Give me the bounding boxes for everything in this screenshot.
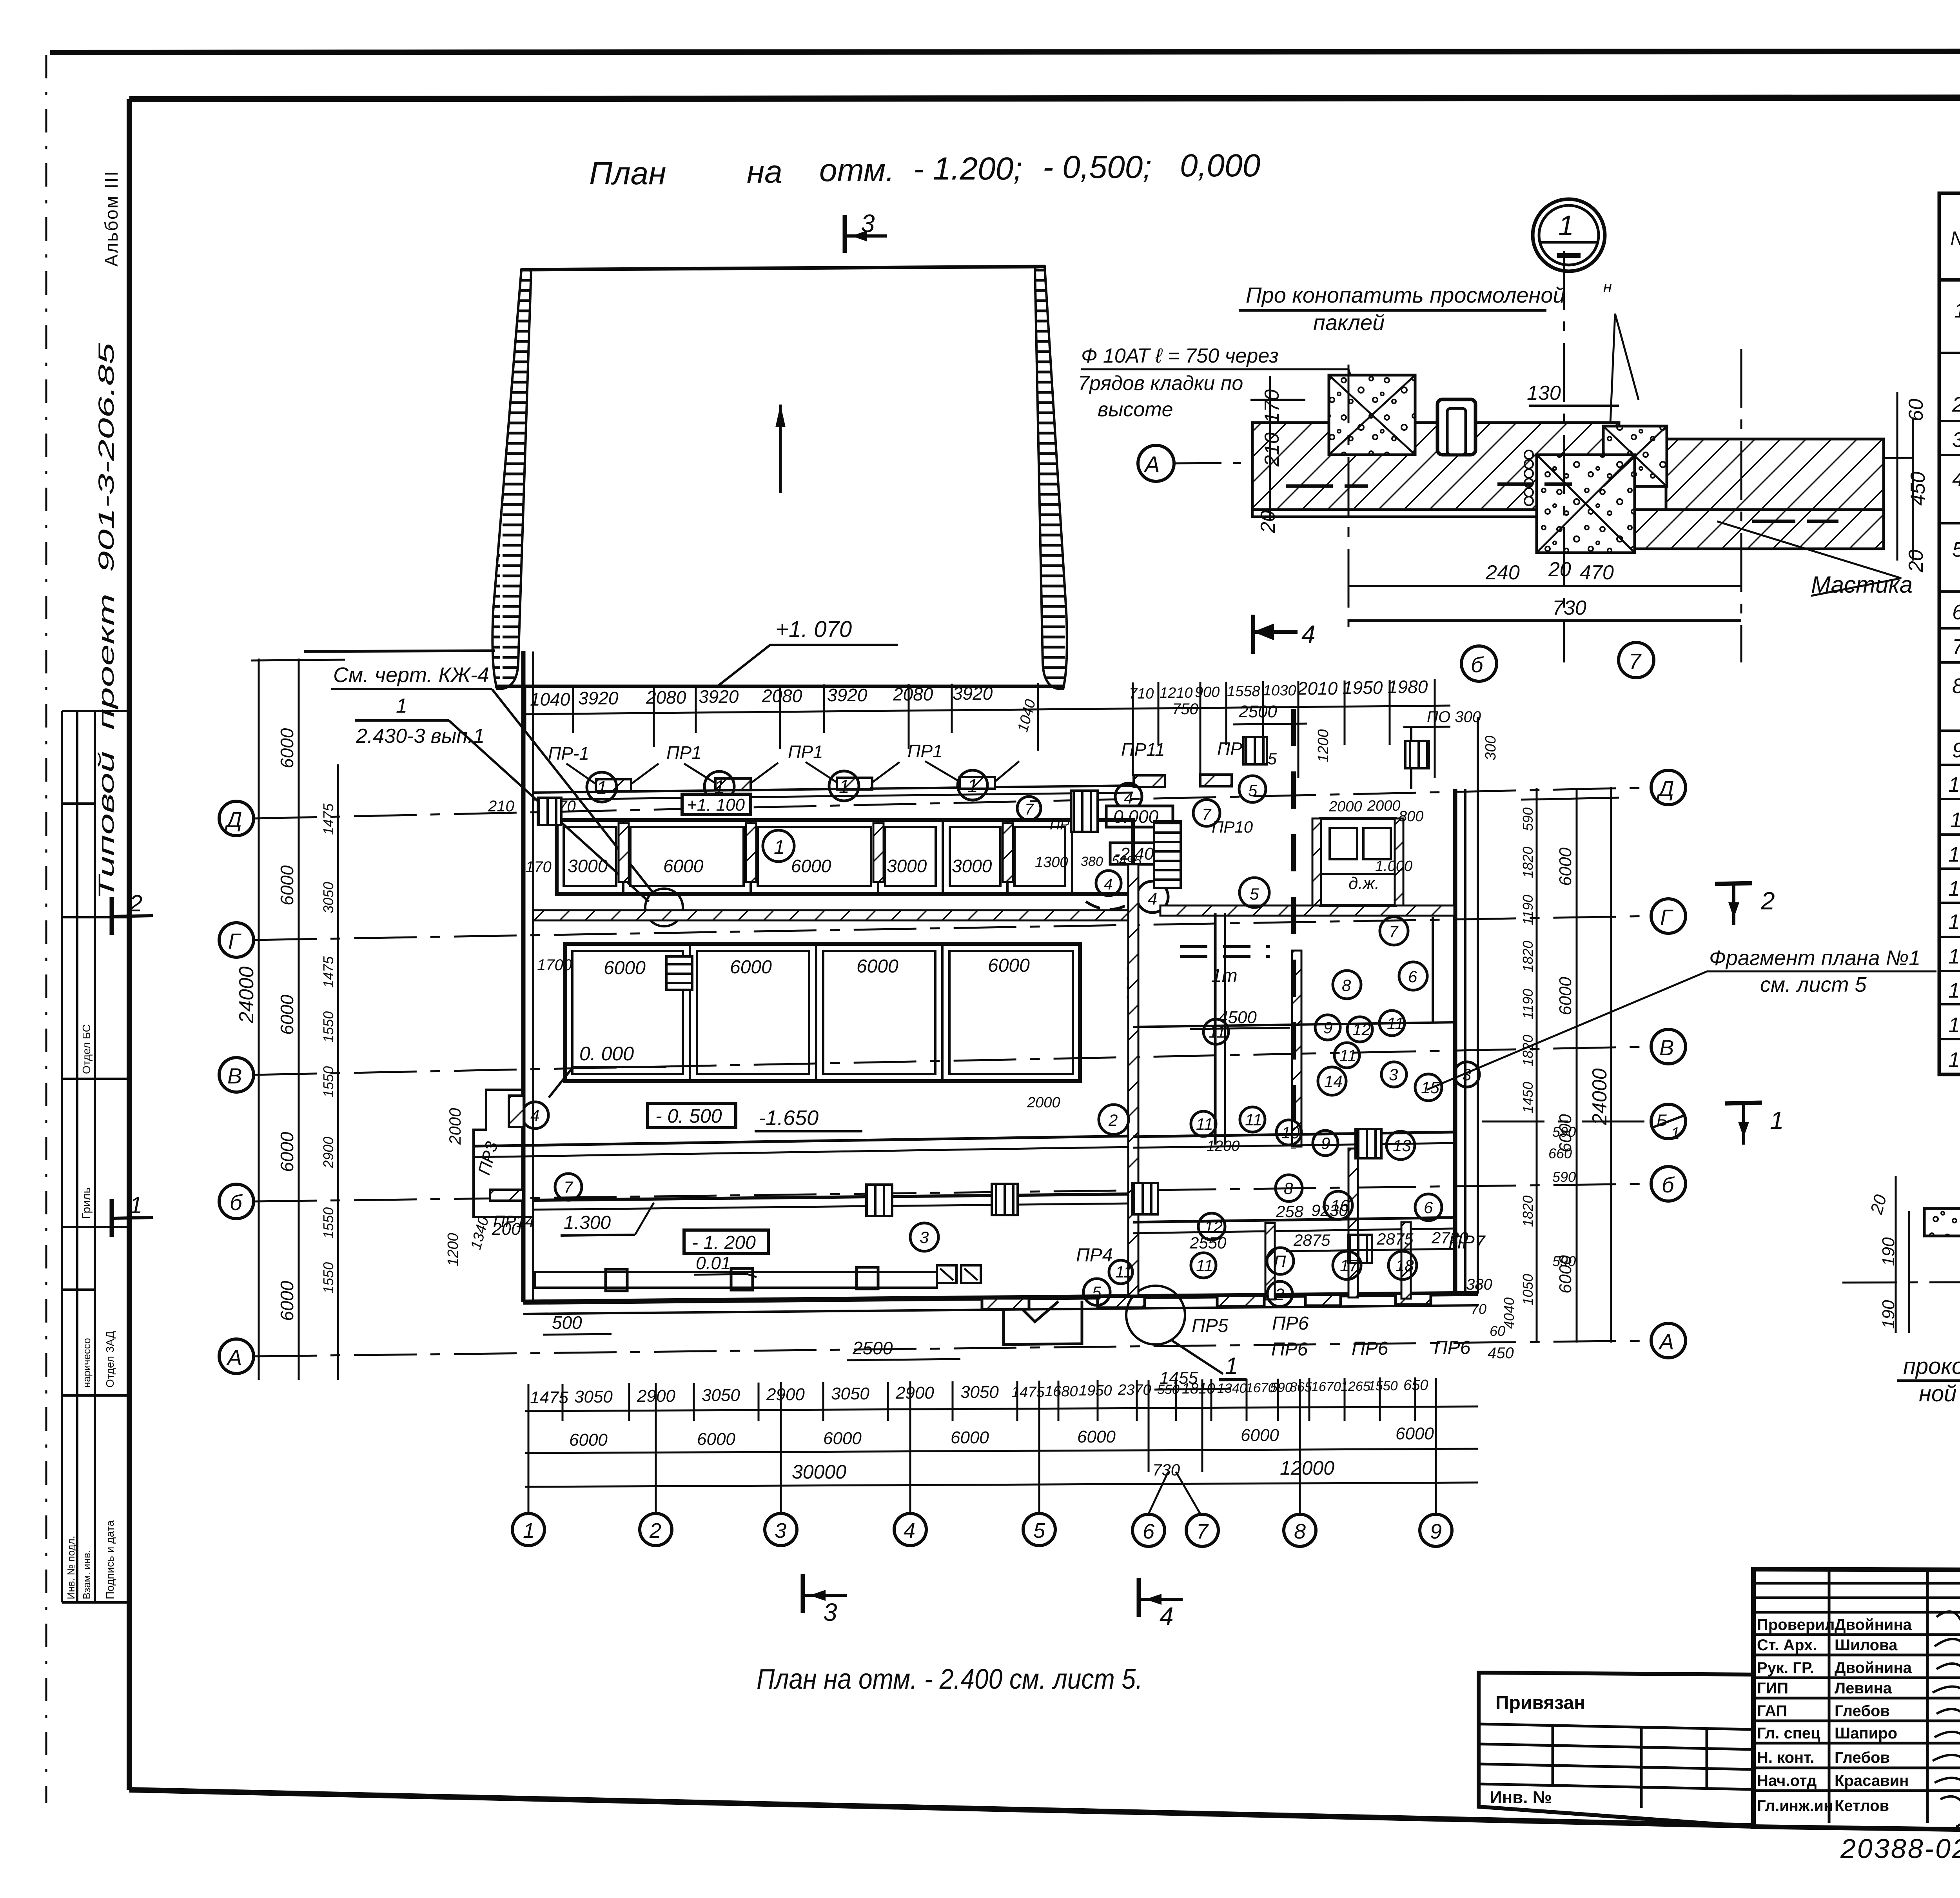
svg-text:2900: 2900: [895, 1383, 934, 1403]
svg-text:1: 1: [774, 836, 785, 858]
svg-text:20388-02: 20388-02: [1840, 1833, 1960, 1864]
svg-text:- 0. 500: - 0. 500: [655, 1105, 722, 1127]
svg-text:1030: 1030: [1263, 682, 1296, 699]
svg-text:4: 4: [1952, 467, 1960, 491]
svg-text:1980: 1980: [1388, 677, 1428, 697]
svg-text:ной паклей: ной паклей: [1919, 1381, 1960, 1406]
svg-text:Мастика: Мастика: [1811, 572, 1913, 598]
svg-text:11: 11: [1196, 1115, 1213, 1133]
svg-text:6000: 6000: [604, 958, 646, 978]
svg-text:1040: 1040: [1014, 698, 1039, 734]
svg-text:Гл.инж.ин: Гл.инж.ин: [1757, 1797, 1833, 1815]
svg-text:4: 4: [530, 1106, 539, 1125]
svg-text:9: 9: [1952, 739, 1960, 762]
svg-text:20: 20: [1548, 558, 1571, 581]
svg-text:6000: 6000: [277, 865, 297, 905]
svg-text:4: 4: [1301, 620, 1316, 648]
svg-text:1.000: 1.000: [1375, 858, 1412, 875]
svg-text:6000: 6000: [1556, 977, 1575, 1015]
svg-text:8: 8: [1284, 1179, 1293, 1198]
svg-text:380: 380: [1081, 854, 1103, 869]
svg-text:3050: 3050: [574, 1387, 613, 1406]
svg-text:1680: 1680: [1045, 1383, 1078, 1400]
svg-text:6000: 6000: [988, 955, 1030, 976]
svg-text:отм.: отм.: [819, 152, 895, 188]
svg-text:450: 450: [1907, 472, 1929, 506]
svg-text:Отдел БС: Отдел БС: [80, 1024, 93, 1074]
svg-text:1700: 1700: [537, 956, 572, 974]
svg-text:8: 8: [1294, 1520, 1306, 1543]
svg-text:2000: 2000: [1367, 798, 1401, 814]
svg-text:170: 170: [1261, 389, 1283, 423]
svg-text:В: В: [227, 1063, 242, 1088]
svg-text:1200: 1200: [445, 1233, 461, 1266]
svg-text:5: 5: [1248, 781, 1258, 800]
svg-text:Фрагмент плана №1: Фрагмент плана №1: [1709, 946, 1920, 970]
svg-text:6000: 6000: [823, 1429, 862, 1448]
svg-text:4: 4: [1124, 789, 1133, 807]
svg-text:5: 5: [1250, 885, 1259, 903]
svg-text:1: 1: [1225, 1353, 1238, 1379]
svg-text:5: 5: [1033, 1519, 1045, 1542]
svg-text:590: 590: [1552, 1169, 1576, 1185]
svg-text:0.01: 0.01: [696, 1253, 731, 1273]
svg-text:1820: 1820: [1520, 847, 1536, 878]
svg-text:3: 3: [920, 1228, 929, 1247]
svg-text:2: 2: [1952, 393, 1960, 416]
svg-text:4: 4: [1148, 889, 1157, 909]
svg-text:6000: 6000: [1077, 1427, 1116, 1446]
svg-text:ПР6: ПР6: [1352, 1338, 1388, 1359]
svg-text:3000: 3000: [568, 856, 608, 876]
svg-text:Гриль: Гриль: [80, 1187, 93, 1219]
svg-text:15: 15: [1948, 945, 1960, 968]
svg-text:- 1.200;: - 1.200;: [913, 151, 1022, 187]
svg-text:1550: 1550: [320, 1262, 336, 1294]
svg-text:14: 14: [1948, 910, 1960, 934]
svg-text:Ст. Арх.: Ст. Арх.: [1757, 1637, 1817, 1654]
svg-text:2000: 2000: [1328, 798, 1362, 815]
svg-text:1.300: 1.300: [564, 1212, 611, 1233]
svg-text:Про конопатить просмоленой: Про конопатить просмоленой: [1246, 283, 1565, 307]
svg-text:ПР4: ПР4: [1076, 1245, 1113, 1266]
svg-text:17: 17: [1948, 1013, 1960, 1037]
svg-text:Красавин: Красавин: [1835, 1772, 1909, 1789]
svg-text:Инв. №: Инв. №: [1490, 1788, 1552, 1807]
svg-text:+1. 070: +1. 070: [775, 617, 852, 642]
svg-text:3000: 3000: [952, 856, 992, 876]
svg-text:ПР1: ПР1: [788, 742, 823, 762]
svg-text:5: 5: [1952, 538, 1960, 561]
svg-text:20: 20: [1257, 510, 1279, 533]
svg-text:ПР6: ПР6: [1434, 1337, 1471, 1358]
svg-text:7: 7: [1202, 805, 1212, 824]
svg-text:6000: 6000: [663, 856, 704, 876]
svg-text:6000: 6000: [277, 994, 297, 1035]
svg-text:1950: 1950: [1079, 1383, 1112, 1399]
svg-text:1200: 1200: [1207, 1138, 1240, 1154]
svg-text:18: 18: [1396, 1256, 1414, 1275]
svg-text:6000: 6000: [1241, 1426, 1279, 1445]
svg-text:2000: 2000: [446, 1108, 464, 1145]
svg-text:1950: 1950: [1343, 677, 1383, 698]
svg-text:1: 1: [129, 1192, 142, 1218]
svg-text:60: 60: [1490, 1323, 1505, 1339]
svg-text:210: 210: [488, 798, 514, 815]
svg-text:Двойнина: Двойнина: [1835, 1616, 1912, 1633]
svg-text:1210: 1210: [1160, 685, 1193, 701]
svg-text:4: 4: [1160, 1602, 1174, 1630]
svg-text:0.000: 0.000: [1113, 806, 1159, 827]
svg-text:18: 18: [1948, 1048, 1960, 1072]
svg-text:9: 9: [1430, 1520, 1442, 1543]
svg-text:2875: 2875: [1376, 1230, 1414, 1248]
svg-text:16: 16: [1948, 979, 1960, 1002]
svg-text:2900: 2900: [320, 1137, 336, 1169]
svg-text:1: 1: [597, 778, 607, 798]
svg-text:730: 730: [1552, 597, 1586, 619]
svg-text:б: б: [1662, 1172, 1675, 1197]
svg-text:6: 6: [1952, 601, 1960, 624]
svg-text:900: 900: [1195, 684, 1220, 700]
svg-text:7: 7: [1629, 649, 1642, 673]
svg-text:8: 8: [1342, 976, 1351, 994]
svg-text:11: 11: [1115, 1263, 1132, 1281]
svg-text:Альбом III: Альбом III: [101, 170, 122, 267]
svg-text:1: 1: [967, 776, 978, 797]
svg-text:210: 210: [1261, 432, 1283, 467]
svg-text:3: 3: [861, 209, 875, 238]
svg-text:14: 14: [1324, 1072, 1343, 1091]
svg-text:ГИП: ГИП: [1757, 1680, 1788, 1697]
svg-text:План на отм. - 2.400 см. лист: План на отм. - 2.400 см. лист 5.: [757, 1664, 1143, 1695]
svg-text:8: 8: [1952, 674, 1960, 698]
svg-text:Глебов: Глебов: [1835, 1749, 1890, 1766]
svg-text:2900: 2900: [766, 1385, 805, 1404]
svg-text:Г: Г: [1660, 905, 1673, 929]
svg-text:1: 1: [396, 695, 407, 717]
svg-text:1190: 1190: [1520, 989, 1536, 1019]
svg-text:1: 1: [1770, 1106, 1784, 1134]
svg-text:13: 13: [1948, 877, 1960, 900]
svg-text:2010: 2010: [1297, 678, 1338, 699]
svg-text:1450: 1450: [1520, 1082, 1536, 1113]
svg-text:20: 20: [1905, 550, 1927, 573]
svg-text:2: 2: [129, 890, 142, 916]
svg-text:б: б: [1471, 652, 1484, 677]
svg-text:6000: 6000: [277, 1132, 297, 1172]
svg-text:- 1. 200: - 1. 200: [692, 1232, 756, 1253]
svg-text:4: 4: [1104, 876, 1112, 893]
svg-text:3920: 3920: [827, 685, 867, 705]
svg-text:6000: 6000: [791, 856, 831, 876]
svg-text:См. черт. КЖ-4: См. черт. КЖ-4: [333, 663, 489, 687]
svg-text:паклей: паклей: [1313, 310, 1385, 335]
svg-text:б: б: [230, 1190, 243, 1215]
svg-text:1: 1: [1954, 299, 1960, 322]
svg-text:ПР6: ПР6: [1272, 1313, 1309, 1334]
svg-text:800: 800: [1399, 808, 1423, 825]
svg-text:2080: 2080: [762, 686, 802, 706]
svg-text:3920: 3920: [699, 686, 739, 707]
svg-text:2000: 2000: [1027, 1094, 1060, 1111]
svg-text:3050: 3050: [960, 1383, 999, 1402]
svg-text:ПР1: ПР1: [907, 741, 943, 761]
svg-text:2875: 2875: [1293, 1231, 1330, 1249]
svg-text:190: 190: [1879, 1300, 1898, 1329]
svg-text:20: 20: [1867, 1192, 1890, 1216]
svg-text:3: 3: [1952, 428, 1960, 452]
svg-text:Взам. инв.: Взам. инв.: [81, 1550, 93, 1599]
svg-text:3050: 3050: [320, 882, 336, 913]
svg-text:3920: 3920: [953, 683, 993, 704]
svg-text:2500: 2500: [1238, 702, 1277, 721]
svg-text:1190: 1190: [1520, 895, 1536, 925]
svg-text:см. лист 5: см. лист 5: [1760, 973, 1867, 996]
svg-text:130: 130: [1527, 382, 1561, 405]
svg-text:12000: 12000: [1280, 1457, 1334, 1479]
svg-text:3920: 3920: [578, 688, 619, 708]
svg-text:2500: 2500: [852, 1338, 893, 1358]
svg-text:3050: 3050: [831, 1384, 869, 1403]
svg-text:12: 12: [1352, 1020, 1371, 1039]
svg-text:2080: 2080: [893, 684, 933, 704]
svg-text:Типовой проект 901-3-206.85: Типовой проект 901-3-206.85: [94, 343, 118, 900]
svg-text:17: 17: [1340, 1256, 1359, 1275]
svg-text:500: 500: [552, 1312, 582, 1333]
svg-text:1: 1: [1671, 1124, 1680, 1142]
svg-text:1т: 1т: [1211, 965, 1238, 986]
svg-text:2550: 2550: [1189, 1234, 1227, 1252]
svg-text:д.ж.: д.ж.: [1348, 874, 1379, 893]
svg-text:258: 258: [1276, 1202, 1304, 1221]
svg-text:1550: 1550: [320, 1066, 336, 1098]
svg-text:1670: 1670: [1311, 1379, 1341, 1394]
svg-text:30000: 30000: [792, 1461, 846, 1483]
svg-text:3050: 3050: [702, 1386, 740, 1405]
svg-text:Д: Д: [1656, 776, 1674, 801]
svg-text:Гл. спец: Гл. спец: [1757, 1725, 1820, 1742]
svg-text:6: 6: [1424, 1198, 1433, 1217]
svg-text:3: 3: [823, 1598, 837, 1626]
svg-text:6000: 6000: [697, 1430, 735, 1449]
svg-text:7: 7: [1196, 1520, 1209, 1543]
svg-text:Подпись и дата: Подпись и дата: [104, 1520, 116, 1599]
svg-text:2: 2: [1108, 1111, 1118, 1129]
svg-text:- 0,500;: - 0,500;: [1043, 149, 1152, 185]
svg-text:6000: 6000: [857, 956, 898, 977]
svg-text:7рядов кладки по: 7рядов кладки по: [1078, 372, 1243, 395]
svg-text:А: А: [1143, 452, 1160, 477]
svg-text:6000: 6000: [277, 728, 297, 768]
svg-text:План: План: [589, 156, 666, 191]
svg-text:10: 10: [1281, 1123, 1300, 1142]
svg-text:1: 1: [523, 1519, 535, 1542]
svg-text:н: н: [1603, 278, 1612, 296]
svg-text:24000: 24000: [235, 966, 258, 1023]
svg-text:240: 240: [1485, 561, 1520, 584]
svg-text:6: 6: [1408, 967, 1417, 986]
svg-text:6000: 6000: [730, 957, 772, 978]
svg-text:11: 11: [1196, 1256, 1213, 1275]
svg-text:проконопатить просмолен-: проконопатить просмолен-: [1903, 1354, 1960, 1379]
svg-text:9: 9: [1321, 1134, 1330, 1152]
svg-text:11: 11: [1209, 1023, 1226, 1041]
svg-text:3: 3: [1389, 1065, 1398, 1084]
svg-text:60: 60: [1905, 399, 1927, 421]
svg-text:380: 380: [1466, 1276, 1492, 1293]
svg-text:6000: 6000: [1556, 847, 1575, 886]
svg-text:П: П: [1274, 1252, 1286, 1270]
svg-text:10: 10: [1948, 773, 1960, 797]
svg-text:0. 000: 0. 000: [579, 1043, 634, 1065]
svg-text:1475: 1475: [320, 956, 336, 988]
svg-text:Глебов: Глебов: [1835, 1702, 1890, 1720]
svg-text:Ф 10АТ ℓ = 750 через: Ф 10АТ ℓ = 750 через: [1081, 345, 1279, 367]
svg-text:660: 660: [1548, 1145, 1572, 1161]
svg-text:7: 7: [564, 1178, 573, 1196]
svg-text:11: 11: [1387, 1014, 1404, 1032]
svg-text:2: 2: [649, 1519, 661, 1542]
svg-text:2370: 2370: [1118, 1382, 1151, 1398]
svg-text:1: 1: [1558, 210, 1574, 241]
svg-text:наричессо: наричессо: [81, 1338, 93, 1388]
svg-text:1820: 1820: [1520, 1196, 1536, 1227]
svg-text:ПР-1: ПР-1: [548, 743, 589, 764]
svg-text:6000: 6000: [1396, 1424, 1434, 1443]
svg-text:7: 7: [1952, 635, 1960, 659]
svg-text:Отдел ЗАД: Отдел ЗАД: [104, 1331, 116, 1388]
svg-text:1475: 1475: [320, 803, 336, 835]
svg-text:А: А: [226, 1345, 242, 1370]
svg-text:11: 11: [1339, 1046, 1357, 1065]
svg-text:470: 470: [1580, 561, 1614, 584]
svg-text:300: 300: [1483, 736, 1499, 760]
svg-text:№: №: [1950, 227, 1960, 249]
svg-text:2: 2: [1275, 1285, 1284, 1303]
svg-text:3000: 3000: [887, 856, 927, 876]
svg-text:750: 750: [1172, 700, 1198, 718]
svg-text:6000: 6000: [569, 1430, 608, 1450]
svg-text:24000: 24000: [1588, 1068, 1611, 1125]
svg-text:1200: 1200: [1315, 729, 1332, 762]
svg-text:2: 2: [1760, 887, 1775, 915]
svg-text:6000: 6000: [951, 1428, 989, 1447]
svg-text:высоте: высоте: [1098, 398, 1173, 421]
svg-text:590: 590: [1520, 807, 1536, 831]
svg-text:Д: Д: [224, 807, 242, 832]
svg-text:590: 590: [1552, 1253, 1576, 1269]
svg-text:ГАП: ГАП: [1757, 1702, 1787, 1720]
svg-text:Шилова: Шилова: [1835, 1637, 1898, 1654]
svg-text:Привязан: Привязан: [1495, 1693, 1585, 1713]
svg-text:9230: 9230: [1311, 1201, 1348, 1219]
svg-text:А: А: [1658, 1329, 1674, 1354]
svg-text:2080: 2080: [646, 687, 686, 708]
svg-text:ПР5: ПР5: [1192, 1316, 1229, 1336]
svg-text:70: 70: [1471, 1301, 1486, 1317]
svg-text:1558: 1558: [1227, 683, 1260, 700]
svg-text:Левина: Левина: [1835, 1680, 1892, 1697]
svg-text:В: В: [1659, 1035, 1674, 1060]
svg-text:1: 1: [839, 777, 849, 797]
svg-text:11: 11: [1245, 1110, 1262, 1129]
svg-text:Н. конт.: Н. конт.: [1757, 1749, 1814, 1766]
svg-text:ПР11: ПР11: [1121, 739, 1165, 760]
svg-text:Кетлов: Кетлов: [1835, 1797, 1889, 1815]
svg-text:Шапиро: Шапиро: [1835, 1725, 1897, 1742]
svg-text:Инв. № подл.: Инв. № подл.: [65, 1536, 77, 1599]
svg-text:Рук. ГР.: Рук. ГР.: [1757, 1659, 1814, 1677]
svg-text:Б: Б: [1657, 1111, 1667, 1129]
svg-text:ПР6: ПР6: [1271, 1339, 1308, 1360]
svg-text:Двойнина: Двойнина: [1835, 1659, 1912, 1677]
svg-text:6: 6: [1143, 1520, 1155, 1543]
svg-text:1455: 1455: [1160, 1368, 1198, 1388]
svg-text:Нач.отд: Нач.отд: [1757, 1772, 1817, 1789]
svg-text:9: 9: [1323, 1018, 1332, 1037]
svg-text:13: 13: [1393, 1136, 1411, 1155]
svg-text:190: 190: [1879, 1237, 1898, 1266]
svg-text:1820: 1820: [1520, 941, 1536, 972]
svg-text:0,000: 0,000: [1180, 148, 1260, 183]
svg-text:1340: 1340: [468, 1215, 492, 1252]
svg-text:590: 590: [1270, 1380, 1292, 1395]
svg-text:2720: 2720: [1431, 1228, 1468, 1247]
svg-text:1040: 1040: [530, 689, 570, 709]
svg-text:1550: 1550: [1368, 1379, 1398, 1394]
svg-text:1550: 1550: [320, 1011, 336, 1043]
svg-text:ПР14: ПР14: [493, 1212, 534, 1230]
svg-text:Г: Г: [228, 929, 241, 953]
svg-text:170: 170: [525, 858, 552, 876]
svg-text:1550: 1550: [320, 1207, 336, 1239]
svg-text:1300: 1300: [1035, 854, 1068, 871]
svg-text:1050: 1050: [1520, 1274, 1536, 1305]
svg-text:3: 3: [775, 1519, 786, 1542]
svg-text:на: на: [747, 154, 782, 190]
svg-text:4: 4: [904, 1519, 915, 1542]
svg-text:450: 450: [1488, 1345, 1514, 1362]
svg-text:-1.650: -1.650: [759, 1106, 818, 1130]
svg-text:Проверил: Проверил: [1757, 1616, 1835, 1633]
svg-text:590: 590: [1552, 1124, 1576, 1140]
svg-text:11: 11: [1950, 808, 1960, 832]
svg-text:6000: 6000: [277, 1281, 297, 1321]
svg-text:ПР1: ПР1: [666, 742, 702, 763]
svg-text:12: 12: [1204, 1218, 1223, 1236]
svg-text:7: 7: [1389, 922, 1399, 941]
svg-text:7: 7: [1025, 801, 1034, 818]
svg-text:12: 12: [1948, 843, 1960, 866]
svg-text:+1. 100: +1. 100: [687, 795, 745, 815]
svg-text:5: 5: [1092, 1283, 1102, 1301]
